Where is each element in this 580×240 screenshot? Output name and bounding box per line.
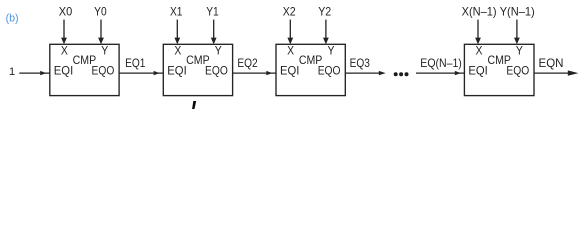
- comparator U1 box: [50, 44, 119, 95]
- svg-text:Y(N–1): Y(N–1): [500, 4, 535, 18]
- wire U4.EQO output EQN: [534, 70, 578, 75]
- svg-text:EQ(N–1): EQ(N–1): [420, 56, 462, 70]
- svg-text:X: X: [61, 44, 68, 58]
- stray caption stroke fragment: [192, 101, 196, 109]
- wire U2.EQO to U3.EQI: [233, 71, 276, 75]
- svg-text:Y1: Y1: [206, 4, 219, 18]
- svg-text:(b): (b): [6, 13, 19, 25]
- svg-text:EQI: EQI: [280, 64, 299, 78]
- svg-text:X: X: [287, 44, 294, 58]
- svg-text:X2: X2: [283, 4, 296, 18]
- svg-text:EQN: EQN: [539, 56, 564, 70]
- svg-text:X: X: [476, 44, 483, 58]
- comparator U2 box: [163, 44, 232, 95]
- svg-text:EQO: EQO: [205, 64, 228, 78]
- svg-text:1: 1: [9, 66, 15, 78]
- svg-text:Y2: Y2: [318, 4, 331, 18]
- ellipsis dots: [394, 72, 409, 76]
- svg-text:EQ2: EQ2: [237, 56, 258, 70]
- wire U3.EQO out: [345, 71, 385, 75]
- svg-text:EQI: EQI: [54, 64, 73, 78]
- svg-text:EQO: EQO: [506, 64, 529, 78]
- svg-text:X(N–1): X(N–1): [462, 4, 497, 18]
- wire Y0 input arrow: [98, 20, 104, 45]
- svg-text:Y: Y: [215, 44, 222, 58]
- wire 1 to U1.EQI: [19, 71, 50, 75]
- svg-text:Y: Y: [516, 44, 523, 58]
- svg-text:EQO: EQO: [318, 64, 341, 78]
- svg-text:EQO: EQO: [92, 64, 115, 78]
- wire X2 input arrow: [287, 20, 293, 45]
- wire U1.EQO to U2.EQI: [119, 71, 163, 75]
- svg-text:Y: Y: [328, 44, 335, 58]
- wire X1 input arrow: [174, 20, 180, 45]
- svg-text:EQI: EQI: [468, 64, 487, 78]
- svg-text:X1: X1: [170, 4, 183, 18]
- svg-text:X0: X0: [59, 4, 73, 18]
- svg-text:EQ3: EQ3: [350, 56, 371, 70]
- comparator U3 box: [276, 44, 345, 95]
- svg-text:Y: Y: [101, 44, 108, 58]
- wire Y1 input arrow: [211, 20, 217, 45]
- svg-text:EQ1: EQ1: [125, 56, 146, 70]
- comparator U4 box: [464, 44, 534, 95]
- wire into U4.EQI: [416, 71, 464, 75]
- svg-text:X: X: [174, 44, 181, 58]
- wire X0 input arrow: [61, 20, 67, 45]
- wire X(N-1) input arrow: [475, 20, 481, 45]
- wire Y2 input arrow: [323, 20, 329, 45]
- svg-text:EQI: EQI: [167, 64, 186, 78]
- wire Y(N-1) input arrow: [514, 20, 520, 45]
- svg-text:Y0: Y0: [94, 4, 107, 18]
